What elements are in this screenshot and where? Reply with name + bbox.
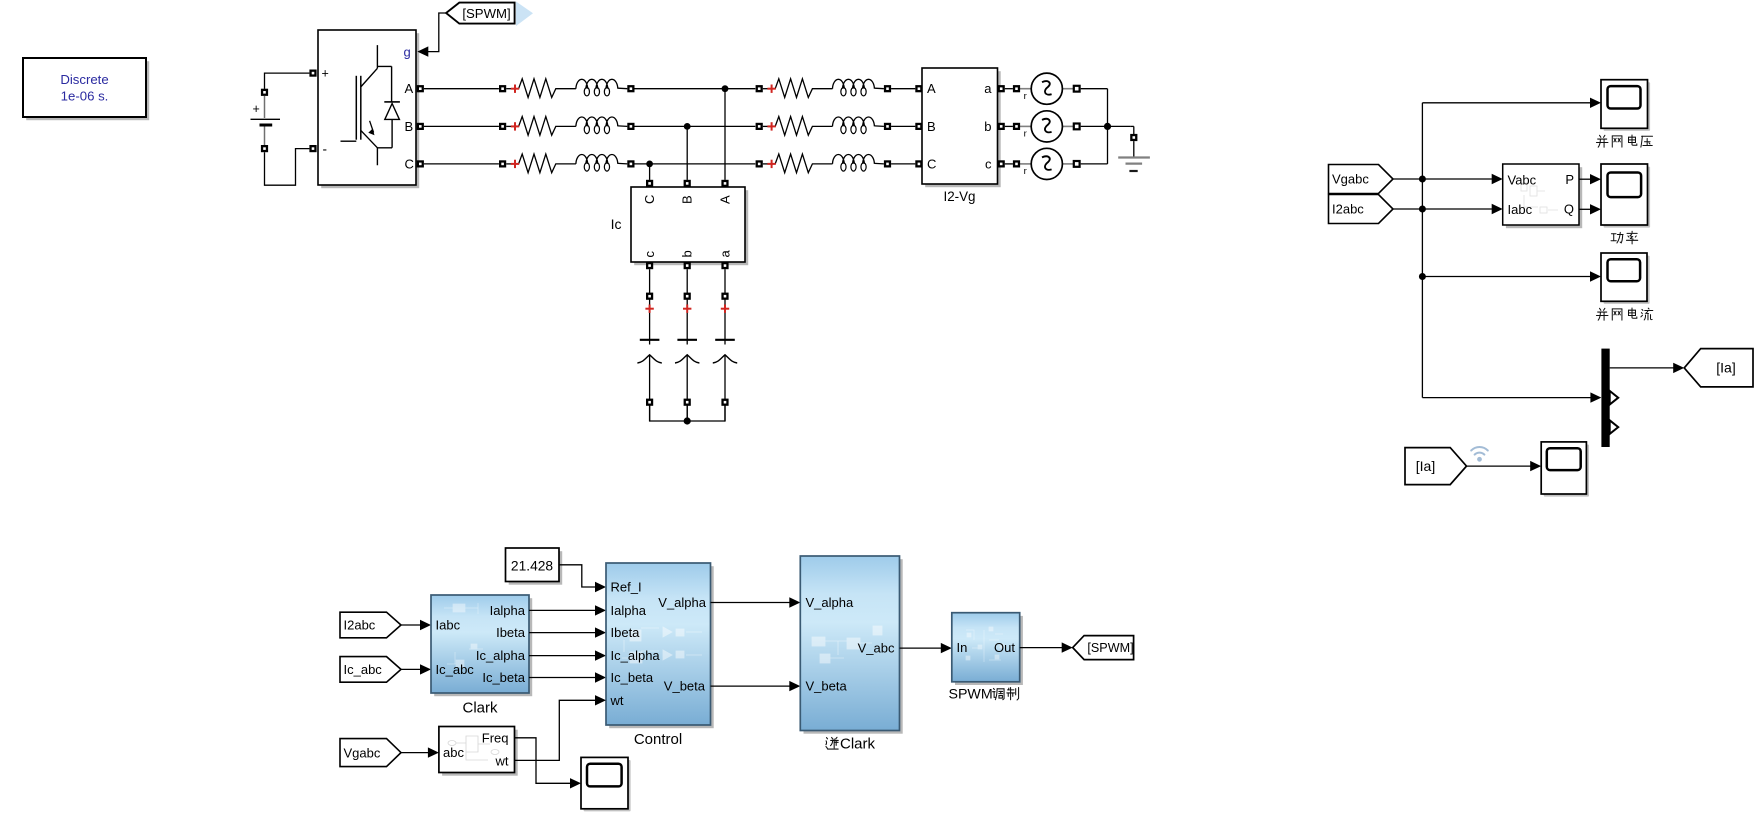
- svg-text:Ref_I: Ref_I: [611, 580, 642, 595]
- svg-text:I2abc: I2abc: [1332, 202, 1364, 217]
- svg-text:wt: wt: [610, 693, 624, 708]
- svg-text:21.428: 21.428: [511, 559, 554, 574]
- svg-text:B: B: [927, 119, 936, 134]
- svg-text:C: C: [927, 156, 936, 171]
- svg-text:Ic_abc: Ic_abc: [436, 662, 475, 677]
- svg-text:b: b: [680, 250, 695, 257]
- svg-text:Ibeta: Ibeta: [611, 625, 641, 640]
- svg-text:Iabc: Iabc: [436, 618, 461, 633]
- svg-text:C: C: [405, 156, 414, 171]
- svg-text:Control: Control: [634, 731, 682, 748]
- svg-text:Ic_beta: Ic_beta: [482, 670, 525, 685]
- svg-text:SPWM: SPWM: [949, 687, 993, 703]
- svg-text:Ic_beta: Ic_beta: [611, 670, 654, 685]
- svg-text:B: B: [680, 195, 695, 204]
- svg-text:I2abc: I2abc: [344, 618, 376, 633]
- svg-text:abc: abc: [443, 745, 464, 760]
- svg-text:a: a: [984, 81, 992, 96]
- svg-text:Freq: Freq: [482, 730, 509, 745]
- svg-text:[Ia]: [Ia]: [1416, 458, 1435, 474]
- svg-text:Ialpha: Ialpha: [611, 603, 647, 618]
- svg-text:Out: Out: [994, 640, 1015, 655]
- svg-text:+: +: [322, 67, 329, 81]
- svg-text:B: B: [405, 119, 414, 134]
- svg-text:wt: wt: [495, 753, 509, 768]
- svg-text:Iabc: Iabc: [1508, 202, 1533, 217]
- svg-text:P: P: [1565, 172, 1574, 187]
- svg-text:Ic_abc: Ic_abc: [344, 662, 383, 677]
- svg-text:V_abc: V_abc: [858, 641, 895, 656]
- svg-text:g: g: [404, 45, 411, 60]
- svg-text:In: In: [957, 640, 968, 655]
- svg-text:+: +: [253, 102, 260, 116]
- svg-text:Q: Q: [1564, 202, 1574, 217]
- svg-text:Vgabc: Vgabc: [344, 745, 381, 760]
- svg-text:V_alpha: V_alpha: [806, 595, 854, 610]
- svg-text:Ialpha: Ialpha: [490, 603, 526, 618]
- svg-text:c: c: [985, 156, 992, 171]
- svg-text:Clark: Clark: [840, 736, 876, 753]
- svg-text:1e-06 s.: 1e-06 s.: [61, 88, 109, 103]
- svg-text:V_beta: V_beta: [806, 679, 848, 694]
- svg-text:A: A: [405, 81, 414, 96]
- svg-text:[Ia]: [Ia]: [1716, 360, 1735, 376]
- svg-text:Ic_alpha: Ic_alpha: [476, 648, 526, 663]
- svg-text:A: A: [927, 81, 936, 96]
- svg-text:[SPWM]: [SPWM]: [462, 6, 510, 21]
- svg-text:Ic: Ic: [611, 216, 622, 232]
- svg-text:V_beta: V_beta: [664, 679, 706, 694]
- svg-text:-: -: [323, 142, 328, 157]
- svg-text:b: b: [984, 119, 991, 134]
- svg-text:c: c: [642, 251, 657, 258]
- svg-text:A: A: [718, 195, 733, 204]
- svg-text:V_alpha: V_alpha: [658, 595, 706, 610]
- svg-text:Ibeta: Ibeta: [496, 625, 526, 640]
- svg-text:Vabc: Vabc: [1508, 172, 1537, 187]
- svg-text:Ic_alpha: Ic_alpha: [611, 648, 661, 663]
- svg-text:a: a: [718, 250, 733, 258]
- svg-text:Clark: Clark: [462, 700, 498, 717]
- svg-text:I2-Vg: I2-Vg: [943, 189, 975, 204]
- svg-text:Discrete: Discrete: [60, 72, 108, 87]
- svg-text:Vgabc: Vgabc: [1332, 172, 1369, 187]
- svg-text:C: C: [642, 195, 657, 204]
- svg-text:[SPWM]: [SPWM]: [1087, 641, 1133, 655]
